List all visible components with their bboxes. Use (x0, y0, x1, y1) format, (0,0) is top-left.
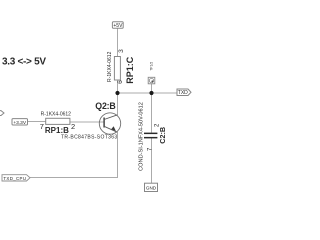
svg-text:RP1:B: RP1:B (45, 126, 69, 135)
svg-text:+3.3V: +3.3V (13, 120, 26, 126)
svg-text:3: 3 (118, 49, 125, 53)
svg-text:RP1:C: RP1:C (125, 56, 135, 84)
svg-text:COND-SI-1NFX4-50V-0612: COND-SI-1NFX4-50V-0612 (139, 102, 145, 171)
svg-text:TP1/2: TP1/2 (150, 62, 154, 71)
svg-text:6: 6 (117, 80, 124, 84)
svg-text:TXD: TXD (178, 90, 188, 96)
svg-text:TR-BC847BS-SOT363: TR-BC847BS-SOT363 (61, 135, 118, 141)
svg-text:7: 7 (40, 122, 44, 131)
svg-text:R-1KX4-0612: R-1KX4-0612 (41, 112, 72, 118)
svg-text:2: 2 (71, 122, 75, 131)
svg-text:3.3 <-> 5V: 3.3 <-> 5V (2, 56, 46, 67)
svg-text:TXD_CPU: TXD_CPU (3, 176, 26, 181)
svg-text:R-1KX4-0612: R-1KX4-0612 (107, 51, 113, 82)
svg-text:Q2:B: Q2:B (95, 101, 115, 111)
svg-text:+5V: +5V (113, 23, 123, 29)
svg-text:GND: GND (146, 186, 157, 191)
svg-text:C2:B: C2:B (158, 127, 167, 144)
